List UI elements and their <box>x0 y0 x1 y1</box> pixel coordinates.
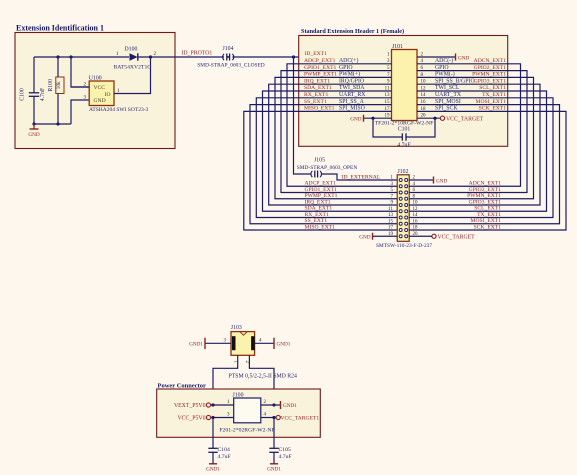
wire J101 pin20 to VCC_TARGET <box>417 117 440 119</box>
svg-text:SPI_SCK: SPI_SCK <box>435 106 458 112</box>
svg-text:GPIO1_EXT1: GPIO1_EXT1 <box>305 187 338 193</box>
power VCC_TARGET1 <box>276 415 280 419</box>
node junction ID net / IO <box>149 55 152 58</box>
node junction pin4/C105 leg <box>272 416 275 419</box>
svg-text:TWI_SDA: TWI_SDA <box>339 85 365 91</box>
svg-text:4.7uF: 4.7uF <box>279 454 292 460</box>
wire C101 right leg <box>406 118 435 137</box>
wire U100 IO pin1 to ID net <box>114 57 151 94</box>
wire C100 branch upper <box>33 57 35 93</box>
svg-text:PWM(-): PWM(-) <box>435 71 455 78</box>
svg-text:10k: 10k <box>56 81 62 89</box>
svg-text:C104: C104 <box>218 447 230 453</box>
wire ADCP_EXT1 J101 row to J102 row <box>287 64 397 186</box>
wire MOSI_EXT1 J101 row to J102 row <box>409 105 559 224</box>
strap J104 SMD-STRAP_0603_CLOSED <box>223 54 224 60</box>
svg-text:RX_EXT1: RX_EXT1 <box>304 92 328 98</box>
svg-text:GPIO: GPIO <box>435 65 449 71</box>
svg-text:ADCN_EXT1: ADCN_EXT1 <box>474 58 507 64</box>
svg-text:SCK_EXT1: SCK_EXT1 <box>479 106 507 112</box>
svg-text:GND1: GND1 <box>283 403 297 409</box>
svg-text:VCC_TARGET: VCC_TARGET <box>438 235 476 241</box>
svg-text:13: 13 <box>388 213 394 218</box>
svg-text:14: 14 <box>413 213 419 218</box>
node junction top rail / R100 <box>56 55 59 58</box>
svg-text:TX_EXT1: TX_EXT1 <box>477 212 501 218</box>
svg-text:GND: GND <box>350 116 361 122</box>
wire J100 pin2 <box>261 404 281 406</box>
svg-text:GND1: GND1 <box>189 342 203 348</box>
svg-text:U100: U100 <box>89 76 102 82</box>
svg-text:J102: J102 <box>398 169 409 175</box>
svg-text:SDA_EXT1: SDA_EXT1 <box>305 206 333 212</box>
wire RX_EXT1 J101 row to J102 row <box>256 98 397 218</box>
wire U100 pin2 stub <box>71 86 89 88</box>
svg-text:R100: R100 <box>48 79 54 92</box>
svg-text:GPIO3_EXT1: GPIO3_EXT1 <box>474 78 507 84</box>
svg-text:MISO_EXT1: MISO_EXT1 <box>304 106 335 112</box>
wire IRQ_EXT1 J101 row to J102 row <box>269 84 398 205</box>
socket pins J102 row 2 <box>399 185 402 188</box>
svg-text:RX_EXT1: RX_EXT1 <box>305 212 329 218</box>
svg-text:12: 12 <box>413 207 419 212</box>
wire J103 pin4 <box>255 342 274 344</box>
wire SCK_EXT1 J101 row to J102 row <box>409 111 566 230</box>
polarity notch J103 <box>240 332 247 335</box>
svg-text:GPIO2_EXT1: GPIO2_EXT1 <box>469 187 502 193</box>
wire J100 pin3 <box>211 417 234 419</box>
svg-text:SCK_EXT1: SCK_EXT1 <box>474 224 502 230</box>
svg-text:J104: J104 <box>223 46 234 52</box>
wire SS_EXT1 J101 row to J102 row <box>250 105 397 224</box>
svg-text:GPIO3_EXT1: GPIO3_EXT1 <box>469 199 502 205</box>
svg-text:J105: J105 <box>314 157 325 163</box>
svg-text:SMD-STRAP_0603_CLOSED: SMD-STRAP_0603_CLOSED <box>197 62 265 68</box>
ground GND1 (J103 pin4) <box>273 338 275 349</box>
svg-text:4.7uF: 4.7uF <box>397 142 411 148</box>
wire U100 VCC branch <box>71 57 89 87</box>
socket pins J102 row 4 <box>399 197 402 200</box>
svg-text:UART_RX: UART_RX <box>339 92 366 98</box>
ground GND (J102 pin19) <box>372 233 374 240</box>
wire J103 pin3 <box>205 342 231 344</box>
ground GND (block1) <box>33 124 35 129</box>
wire GND bottom rail <box>34 123 71 125</box>
socket pins J102 row 5 <box>399 204 402 207</box>
node junction pin1/J103 leg <box>211 403 214 406</box>
wire J103 pin2 drop <box>249 355 274 405</box>
svg-text:17: 17 <box>388 226 394 231</box>
svg-text:10: 10 <box>413 201 419 206</box>
socket pins J102 row 9 <box>399 229 402 232</box>
svg-text:TWI_SCL: TWI_SCL <box>435 85 460 91</box>
ground GND (J101 pin19) <box>363 115 365 122</box>
svg-text:11: 11 <box>388 207 393 212</box>
wire C104 lower leg <box>212 452 214 464</box>
node junction pin2/J103 leg <box>272 403 275 406</box>
svg-text:SPI_SS_B/GPIO: SPI_SS_B/GPIO <box>435 78 475 84</box>
svg-text:SS_EXT1: SS_EXT1 <box>305 218 328 224</box>
wire PWMN_EXT1 J101 row to J102 row <box>409 77 533 198</box>
wire J102 pin20 to VCC_TARGET <box>409 235 432 237</box>
svg-text:PWMN_EXT1: PWMN_EXT1 <box>467 193 501 199</box>
wire ADCN_EXT1 J101 row to J102 row <box>409 64 520 186</box>
power VCC_TARGET (J102 pin20) <box>432 234 436 238</box>
svg-text:VCC_P5V0: VCC_P5V0 <box>177 416 205 422</box>
svg-text:SCL_EXT1: SCL_EXT1 <box>474 206 501 212</box>
contact bar J103 right <box>251 336 255 350</box>
node junction ID / J105 drop <box>292 55 295 58</box>
node junction pin3/C104 leg <box>211 416 214 419</box>
node junction C101 right <box>433 117 436 120</box>
svg-text:J103: J103 <box>231 325 242 331</box>
svg-text:VEXT_P5V0: VEXT_P5V0 <box>174 403 206 409</box>
node junction top rail / U100 VCC branch <box>69 55 72 58</box>
svg-text:15: 15 <box>388 219 394 224</box>
wire GPIO2_EXT1 J101 row to J102 row <box>409 71 527 193</box>
svg-text:GND: GND <box>28 132 39 138</box>
wire R100 branch lower <box>57 94 59 125</box>
node junction bottom rail / GND stub <box>32 122 35 125</box>
socket pins J102 row 7 <box>399 216 402 219</box>
svg-text:4.7nF: 4.7nF <box>40 87 46 101</box>
svg-text:GND1: GND1 <box>267 467 281 473</box>
wire ID net (D100 cathode to box edge) <box>138 56 224 58</box>
svg-text:ADCP_EXT1: ADCP_EXT1 <box>305 181 337 187</box>
wire C105 upper leg <box>273 418 275 449</box>
ground GND1 (C105) <box>270 463 278 465</box>
svg-text:IRQ_EXT1: IRQ_EXT1 <box>305 199 331 205</box>
svg-text:IRQ/GPIO: IRQ/GPIO <box>339 78 364 84</box>
svg-text:16: 16 <box>413 219 419 224</box>
svg-text:PWMP_EXT1: PWMP_EXT1 <box>304 72 337 78</box>
svg-text:TX_EXT1: TX_EXT1 <box>482 92 506 98</box>
svg-text:ADCN_EXT1: ADCN_EXT1 <box>469 181 502 187</box>
svg-text:GND: GND <box>94 98 106 104</box>
connector J103 body <box>231 332 255 356</box>
svg-text:MISO_EXT1: MISO_EXT1 <box>305 224 336 230</box>
socket pins J102 row 8 <box>399 222 402 225</box>
svg-text:GPIO: GPIO <box>339 65 353 71</box>
wire C101 left leg <box>373 118 402 137</box>
wire C104 upper leg <box>212 418 214 449</box>
wire ID drop to J105 <box>294 57 312 174</box>
wire R100 branch upper <box>57 57 59 77</box>
svg-text:SDA_EXT1: SDA_EXT1 <box>304 85 332 91</box>
contact bar J103 left <box>232 336 236 350</box>
svg-text:Standard Extension Header 1 (F: Standard Extension Header 1 (Female) <box>301 28 404 35</box>
svg-text:VCC: VCC <box>94 85 106 91</box>
svg-text:ID_EXT1: ID_EXT1 <box>305 51 328 57</box>
wire J100 pin4 <box>261 417 276 419</box>
ground GND (J101 pin2) <box>455 54 457 61</box>
wire TX_EXT1 J101 row to J102 row <box>409 98 553 218</box>
ground GND1 (J103 pin3) <box>204 338 206 349</box>
svg-text:4.7uF: 4.7uF <box>218 454 231 460</box>
svg-text:PWMN_EXT1: PWMN_EXT1 <box>472 72 506 78</box>
svg-text:ATSHA204 SWI SOT23-3: ATSHA204 SWI SOT23-3 <box>89 107 149 113</box>
svg-text:C105: C105 <box>279 447 291 453</box>
wire SCL_EXT1 J101 row to J102 row <box>409 91 546 211</box>
socket pins J102 row 6 <box>399 210 402 213</box>
svg-text:GPIO1_EXT1: GPIO1_EXT1 <box>304 65 337 71</box>
wire U100 GND branch <box>71 100 89 124</box>
diode D100 BAT54XV2T1G <box>130 53 138 60</box>
resistor R100 <box>56 77 64 94</box>
IC U100 ATSHA204 <box>89 81 114 106</box>
strap J105 SMD-STRAP_0603_OPEN <box>311 171 312 177</box>
ground GND1 (J100 pin2) <box>280 401 282 409</box>
wire SDA_EXT1 J101 row to J102 row <box>263 91 398 211</box>
power VCC_P5V0 <box>206 415 210 419</box>
svg-text:F201-2*02RGF-W2-NF: F201-2*02RGF-W2-NF <box>219 428 274 434</box>
wire GPIO3_EXT1 J101 row to J102 row <box>409 84 540 205</box>
socket pins J102 row 3 <box>399 191 402 194</box>
svg-text:ID_EXTERNAL: ID_EXTERNAL <box>342 174 381 180</box>
svg-text:SCL_EXT1: SCL_EXT1 <box>479 85 506 91</box>
svg-text:GND: GND <box>359 234 370 240</box>
wire J101 pin2 to GND <box>417 56 456 58</box>
svg-text:BAT54XV2T1G: BAT54XV2T1G <box>114 65 152 71</box>
svg-text:C101: C101 <box>398 126 411 132</box>
wire VCC top rail <box>34 56 129 58</box>
wire GPIO1_EXT1 J101 row to J102 row <box>281 71 397 193</box>
svg-text:D100: D100 <box>125 47 138 53</box>
power VCC_TARGET (J101 pin20) <box>440 116 444 120</box>
svg-text:SS_EXT1: SS_EXT1 <box>304 99 327 105</box>
svg-text:Extension Identification 1: Extension Identification 1 <box>16 24 104 33</box>
capacitor C100 <box>29 92 39 94</box>
svg-text:C100: C100 <box>20 88 26 101</box>
svg-text:SPI_MISO: SPI_MISO <box>339 106 365 112</box>
svg-text:ADC(+): ADC(+) <box>339 57 358 64</box>
wire PWMP_EXT1 J101 row to J102 row <box>275 77 397 198</box>
connector J100 body <box>234 398 261 423</box>
svg-text:J100: J100 <box>233 392 244 398</box>
svg-text:GPIO2_EXT1: GPIO2_EXT1 <box>474 65 507 71</box>
svg-text:VCC_TARGET: VCC_TARGET <box>446 117 484 123</box>
svg-text:PTSM 0,5/2-2,5-II SMD R24: PTSM 0,5/2-2,5-II SMD R24 <box>229 373 298 379</box>
svg-text:J101: J101 <box>392 44 403 50</box>
capacitor C104 <box>208 447 217 449</box>
wire J101 pin19 GND stub <box>364 117 392 119</box>
svg-text:GND1: GND1 <box>277 342 291 348</box>
svg-text:VCC_TARGET1: VCC_TARGET1 <box>281 416 320 422</box>
svg-text:PWMP_EXT1: PWMP_EXT1 <box>305 193 338 199</box>
svg-text:GND: GND <box>458 55 469 61</box>
node junction bottom rail / R100 <box>56 122 59 125</box>
node junction C101 left <box>371 117 374 120</box>
svg-text:SMD-STRAP_0603_OPEN: SMD-STRAP_0603_OPEN <box>297 165 358 171</box>
svg-text:UART_TX: UART_TX <box>435 92 462 98</box>
socket pins J102 row 1 <box>399 179 402 182</box>
wire C105 lower leg <box>273 452 275 464</box>
svg-text:MOSI_EXT1: MOSI_EXT1 <box>476 99 507 105</box>
svg-text:SPI_SS_A: SPI_SS_A <box>339 99 365 105</box>
svg-text:PWM(+): PWM(+) <box>339 71 360 78</box>
wire J100 pin1 <box>211 404 234 406</box>
wire ID_PROTO1 to J101 pin1 <box>232 56 391 58</box>
svg-text:SPI_MOSI: SPI_MOSI <box>435 99 461 105</box>
svg-text:ADC(-): ADC(-) <box>435 57 453 64</box>
power VEXT_P5V0 <box>206 403 210 407</box>
capacitor C101 <box>401 133 403 140</box>
capacitor C105 <box>269 447 278 449</box>
wire ID_EXTERNAL to J102 pin1 <box>321 174 397 180</box>
connector J102 body <box>397 175 409 242</box>
wire J102 pin2 to GND <box>409 179 433 181</box>
socket pins J102 row 10 <box>399 235 402 238</box>
svg-text:GND: GND <box>436 178 447 184</box>
svg-text:ID_PROTO1: ID_PROTO1 <box>182 51 213 57</box>
wire C100 branch lower <box>33 96 35 124</box>
wire J103 pin1 drop <box>213 355 238 405</box>
svg-text:MOSI_EXT1: MOSI_EXT1 <box>471 218 502 224</box>
wire J102 pin19 GND stub <box>373 235 398 237</box>
connector J101 body <box>392 50 418 121</box>
ground GND (J102 pin2) <box>433 177 435 184</box>
wire MISO_EXT1 J101 row to J102 row <box>244 111 397 230</box>
ground GND1 (C104) <box>209 463 217 465</box>
svg-text:18: 18 <box>413 226 419 231</box>
svg-text:GND1: GND1 <box>206 467 220 473</box>
svg-text:SMTSW-110-23-F-D-237: SMTSW-110-23-F-D-237 <box>376 243 432 249</box>
svg-text:ADCP_EXT1: ADCP_EXT1 <box>304 58 336 64</box>
svg-text:IRQ_EXT1: IRQ_EXT1 <box>304 78 330 84</box>
